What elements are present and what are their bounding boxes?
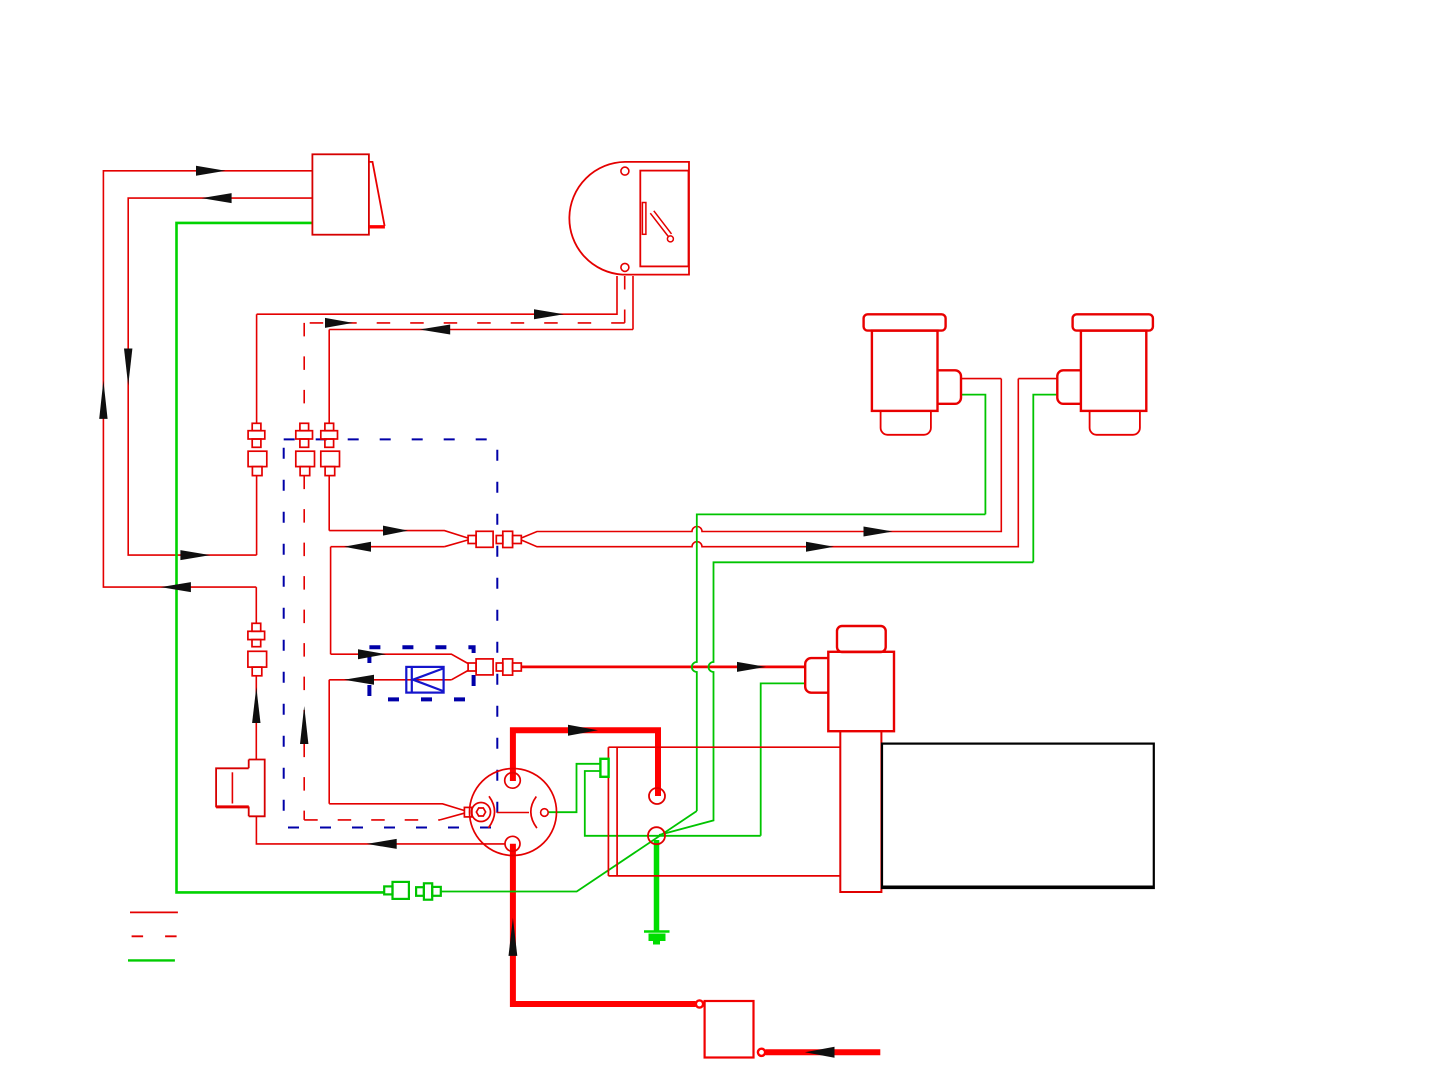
arrow right on y=654.2	[358, 649, 386, 659]
arrow down on x=128	[124, 349, 132, 386]
green lamp leads	[961, 395, 1057, 563]
wire: headlamp pair forward run	[329, 531, 468, 655]
arrow left on switch feed	[202, 193, 232, 203]
arrow right on y=667 (coil feed)	[737, 662, 766, 672]
wire: fused circuit forward	[329, 654, 468, 804]
headlamp L2	[1057, 314, 1153, 435]
arrow up on x=256 (key switch drop)	[252, 687, 260, 723]
wire: headlamp pair to lamps (right of connector)	[521, 379, 1018, 547]
ground symbol	[644, 932, 670, 945]
wire: thick lead distributor to starter button	[513, 844, 696, 1004]
fuse F1	[406, 667, 443, 693]
headlamp L1	[864, 314, 961, 435]
starter/coil unit	[805, 626, 894, 892]
wire: ammeter return bus	[329, 276, 633, 531]
arrow left on y=680	[344, 675, 374, 685]
bullet connector pair (column x=304)	[296, 423, 315, 475]
ammeter M1	[569, 162, 689, 275]
green wire: distributor to switch box terminal	[548, 764, 600, 812]
green wire: lamp 1 ground drop	[692, 514, 986, 811]
wire: battery feed (left outer vertical)	[103, 171, 312, 587]
wire: light switch feed (left inner vertical)	[128, 198, 312, 555]
arrow right on battery feed top	[196, 166, 226, 176]
arrow right on y=546.7 (right section)	[806, 542, 834, 552]
wire: thick ignition lead distributor to switch box	[513, 730, 658, 796]
starter button box	[705, 1001, 754, 1058]
arrow left on y=546.7 (left section)	[344, 542, 371, 552]
wire: coil feed (thick-ish right of connector)	[521, 666, 805, 669]
green wire: switch box inner loop	[585, 771, 761, 836]
arrow up on thick starter lead	[509, 918, 518, 956]
legend: dashed red wire	[132, 935, 179, 937]
wire: key switch to distributor	[256, 816, 505, 844]
arrow left on battery thick lead	[805, 1047, 835, 1058]
instrument panel dashed outline (blue)	[284, 439, 498, 827]
green wire: switch box to coil	[761, 683, 806, 835]
wire: thick lead from starter button to battery	[766, 1049, 881, 1055]
terminal ring at starter button bottom	[758, 1049, 765, 1056]
arrow right on y=555	[180, 550, 210, 560]
light switch S1	[312, 154, 385, 234]
battery	[882, 744, 1154, 888]
arrow right on y=530.6 (left section)	[383, 526, 408, 536]
arrow up on dashed x=304	[300, 706, 308, 744]
bullet connector pair (column x=256, lower)	[248, 623, 267, 676]
arrow right on thick ignition lead	[568, 725, 598, 736]
wire: key switch drop	[255, 587, 257, 759]
key switch S2	[216, 760, 265, 817]
ignition switch box (solenoid)	[608, 747, 841, 876]
distributor	[464, 769, 556, 856]
arrow right on y=531.5 (right section)	[864, 527, 893, 537]
legend: green wire	[128, 959, 175, 961]
green wire: diagonal to ground terminal	[441, 811, 697, 892]
arrow left on y=843.9	[367, 839, 397, 849]
green wire: lamp 2 ground drop	[659, 562, 1033, 835]
wire: distributor crimp V	[329, 804, 464, 820]
legend: solid red wire	[130, 911, 178, 913]
arrow up on x=103	[99, 381, 107, 419]
wire: ammeter feed bus (top)	[257, 276, 617, 555]
arrow right on dashed y=323	[325, 318, 353, 328]
arrow left on y=587	[161, 582, 191, 592]
inline connector (fused circuit)	[468, 659, 521, 675]
wire: dashed instrument feed	[304, 276, 625, 820]
inline connector (green ground lead)	[384, 882, 441, 900]
bullet connector pair (column x=256, upper)	[248, 423, 267, 475]
flow arrows (black)	[99, 166, 893, 1058]
green terminal post on switch box	[600, 759, 608, 777]
inline connector (headlamp circuit)	[468, 531, 521, 547]
fuse holder dashed outline (blue)	[369, 647, 473, 699]
bullet connector pair (column x=329)	[321, 423, 340, 475]
arrow right on y=314	[534, 309, 564, 319]
red lamp leads	[961, 378, 1057, 380]
terminal ring at starter button top	[696, 1000, 703, 1007]
arrow left on y=329.5	[420, 325, 451, 335]
thick green ground wire	[654, 840, 660, 931]
wire: green tail light lead from light switch	[177, 223, 385, 893]
